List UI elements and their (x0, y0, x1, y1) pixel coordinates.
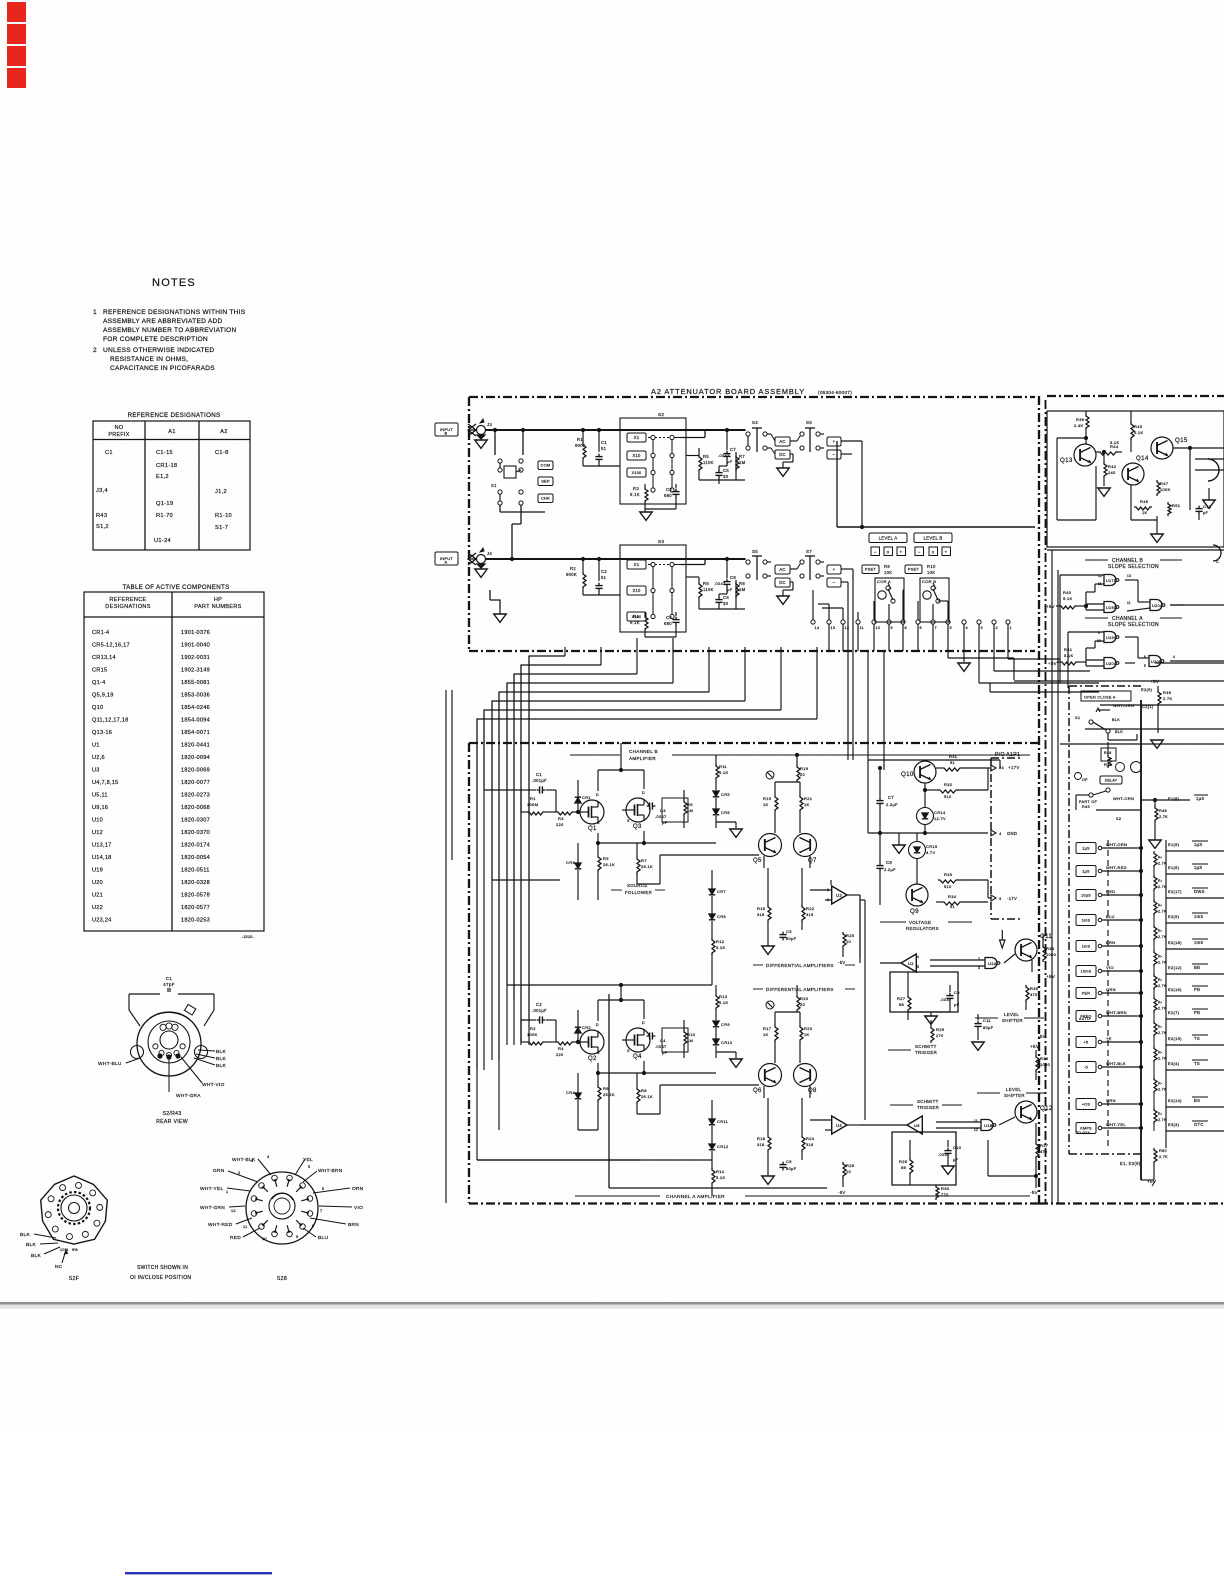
vertical wires from terminals to amplifiers (528, 656, 530, 770)
svg-text:REFERENCE DESIGNATIONS WITHIN: REFERENCE DESIGNATIONS WITHIN THIS (103, 309, 246, 316)
resistor R44 5.1K (1098, 452, 1118, 455)
svg-text:C3: C3 (660, 808, 666, 813)
svg-text:CR15: CR15 (92, 668, 107, 674)
svg-text:Q1: Q1 (588, 826, 597, 832)
svg-text:COR A: COR A (877, 579, 891, 584)
ground AC/DC channel A (777, 596, 789, 604)
svg-text:BB: BB (1194, 965, 1200, 970)
svg-text:BS: BS (1194, 1098, 1200, 1103)
svg-text:R11: R11 (719, 764, 727, 769)
svg-text:PB: PB (1194, 1010, 1200, 1015)
wire staircase long extensions (990, 691, 1099, 693)
svg-text:-17V: -17V (1007, 896, 1017, 901)
svg-text:R10: R10 (687, 1032, 696, 1037)
svg-text:1mS: 1mS (1194, 940, 1204, 945)
ground C10 (942, 1166, 954, 1174)
svg-text:C3: C3 (666, 487, 672, 492)
wire row level (1096, 809, 1141, 811)
svg-text:DELAY: DELAY (1105, 778, 1118, 782)
svg-text:SLOPE SELECTION: SLOPE SELECTION (1108, 622, 1159, 628)
svg-text:R•: R• (1158, 1082, 1163, 1086)
svg-text:D: D (642, 791, 645, 795)
svg-text:D: D (642, 1021, 645, 1025)
NAND U20A (1150, 600, 1162, 611)
wire Q5-Q7 emitters (763, 856, 765, 868)
NAND U2A2 (985, 958, 997, 969)
svg-text:C5: C5 (786, 929, 792, 934)
svg-text:X1: X1 (634, 562, 640, 567)
svg-text:Q1-4: Q1-4 (92, 680, 105, 686)
svg-text:1820-0068: 1820-0068 (181, 805, 210, 811)
connector S28 (246, 1172, 318, 1244)
svg-text:110K: 110K (703, 460, 714, 465)
wire vreg to A1P1 (867, 743, 869, 833)
svg-text:68: 68 (899, 1002, 905, 1007)
COR B switch box (920, 578, 949, 622)
svg-text:PART OF: PART OF (1079, 800, 1098, 804)
svg-text:E2(7): E2(7) (1168, 1010, 1180, 1015)
svg-text:BLU: BLU (318, 1235, 328, 1241)
svg-text:Q10: Q10 (92, 705, 103, 711)
COR A switch box (875, 578, 904, 622)
svg-text:R17: R17 (763, 1026, 772, 1031)
wire bus staircase right side 2 (744, 743, 746, 760)
svg-text:LEVEL: LEVEL (1004, 1012, 1019, 1017)
svg-text:5: 5 (950, 626, 952, 630)
source follower wires A (597, 1063, 599, 1082)
svg-text:CR5: CR5 (721, 792, 730, 797)
strip row E1(5) (1076, 843, 1096, 854)
svg-text:DWS: DWS (1194, 889, 1205, 894)
transistor Q7 (794, 834, 817, 857)
svg-text:A1: A1 (168, 429, 175, 435)
svg-text:10: 10 (846, 1169, 852, 1174)
svg-text:1854-0094: 1854-0094 (181, 718, 210, 724)
resistor R39 2.4K (1086, 414, 1089, 430)
ground CR6 (716, 821, 736, 823)
svg-text:R16: R16 (757, 906, 766, 911)
wire bus staircase (529, 656, 565, 1045)
svg-text:.0047: .0047 (655, 1044, 667, 1049)
svg-text:U13,17: U13,17 (92, 843, 112, 849)
svg-text:11: 11 (860, 626, 865, 630)
svg-text:7: 7 (320, 1209, 322, 1213)
svg-text:+17V: +17V (1008, 765, 1020, 770)
svg-text:OPEN CLOSE A: OPEN CLOSE A (1084, 696, 1116, 700)
wire Q12 emitter loop (987, 1140, 989, 1176)
svg-text:CR9: CR9 (721, 1022, 730, 1027)
svg-text:1820-0069: 1820-0069 (181, 768, 210, 774)
svg-text:.0047: .0047 (655, 814, 667, 819)
svg-text:9.1K: 9.1K (630, 620, 640, 625)
svg-text:WHT-BRN: WHT-BRN (1106, 1010, 1127, 1015)
svg-text:51: 51 (950, 904, 956, 909)
svg-text:9: 9 (296, 1235, 298, 1239)
svg-text:DC: DC (779, 580, 785, 585)
svg-text:2.7K: 2.7K (1158, 1031, 1167, 1035)
svg-text:U1: U1 (92, 743, 100, 749)
svg-text:5.1K: 5.1K (719, 770, 728, 775)
svg-text:10: 10 (262, 1237, 267, 1241)
svg-text:R21: R21 (804, 796, 813, 801)
svg-text:R1: R1 (530, 796, 536, 801)
svg-text:1855-0081: 1855-0081 (181, 680, 210, 686)
diode CR9 (713, 1021, 719, 1026)
diode CR3 (575, 863, 581, 868)
svg-text:R•: R• (1158, 1112, 1163, 1116)
transistor Q5 (759, 834, 782, 857)
strip row E2(14) (1076, 1099, 1096, 1110)
capacitor C8 .0047uF (726, 579, 728, 582)
svg-text:51: 51 (950, 760, 956, 765)
svg-text:R34: R34 (948, 894, 957, 899)
resistor R25 10 (843, 932, 846, 948)
svg-text:1M: 1M (739, 460, 746, 465)
capacitor C5 80uF (767, 922, 769, 938)
svg-text:+5V: +5V (1046, 604, 1055, 609)
svg-text:Q15: Q15 (1175, 437, 1188, 444)
svg-text:S1-7: S1-7 (215, 525, 228, 531)
svg-text:12.7V: 12.7V (934, 816, 946, 821)
zener CR14 12.7V (917, 808, 934, 825)
svg-text:R8: R8 (739, 581, 745, 586)
svg-text:S1,2: S1,2 (96, 524, 109, 530)
svg-text:-5V: -5V (1030, 1190, 1039, 1195)
svg-text:PSET: PSET (865, 567, 877, 572)
svg-text:51: 51 (601, 575, 607, 580)
svg-text:VIO: VIO (354, 1205, 363, 1211)
svg-text:E2(9): E2(9) (1141, 687, 1153, 692)
svg-text:S7: S7 (806, 549, 812, 554)
svg-text:µF: µF (662, 1050, 668, 1055)
resistor R26 68 (910, 1158, 913, 1175)
svg-text:R26: R26 (899, 1159, 908, 1164)
svg-text:µF: µF (727, 587, 733, 592)
svg-text:R13: R13 (719, 994, 728, 999)
svg-text:2.7K: 2.7K (1158, 984, 1167, 988)
wire U2A out (880, 962, 901, 964)
svg-text:CR8: CR8 (717, 914, 726, 919)
NAND U20B (1149, 656, 1161, 667)
svg-text:HP: HP (214, 597, 222, 603)
svg-text:Q1-19: Q1-19 (156, 501, 173, 507)
svg-text:E3(4): E3(4) (1168, 1061, 1180, 1066)
vertical bundle mid (852, 569, 854, 760)
resistor R23 1K (800, 1025, 803, 1042)
resistor R10 1M amp (684, 1030, 687, 1046)
resistor R-chain 2.7K a (1155, 806, 1158, 822)
resistor R14 5.1K (712, 1168, 715, 1185)
svg-text:26.1K: 26.1K (641, 1094, 653, 1099)
wire horizontal links lower (477, 1159, 640, 1161)
svg-text:E2(12): E2(12) (1168, 965, 1182, 970)
svg-text:2.7K: 2.7K (1159, 1155, 1168, 1159)
resistor R27 68 (908, 995, 911, 1012)
svg-text:R6: R6 (703, 581, 709, 586)
svg-text:WHT-YEL: WHT-YEL (1106, 1122, 1126, 1127)
transistor Q14 (1122, 463, 1144, 485)
svg-text:1820-0054: 1820-0054 (181, 855, 210, 861)
svg-text:S28: S28 (277, 1276, 287, 1282)
svg-text:4: 4 (267, 1155, 269, 1159)
svg-text:10µS: 10µS (1081, 893, 1091, 897)
svg-text:P/O A1P1: P/O A1P1 (995, 752, 1020, 758)
strip row E2(18) (1076, 941, 1096, 952)
svg-text:30: 30 (723, 474, 729, 479)
wire U4 out to right (859, 1124, 861, 1126)
svg-text:9.1K: 9.1K (630, 492, 640, 497)
svg-text:270: 270 (936, 1033, 944, 1038)
svg-text:270: 270 (941, 1192, 949, 1197)
svg-text:R5: R5 (703, 454, 709, 459)
svg-text:R19: R19 (800, 766, 809, 771)
svg-text:CR15: CR15 (926, 844, 938, 849)
resistor R37 470 (1036, 1142, 1039, 1159)
wire U3 out to right (859, 895, 861, 963)
diode CR10 (713, 1039, 719, 1044)
resistor R19 20 (797, 765, 800, 782)
component box C3 R9 (662, 798, 688, 822)
svg-text:−: − (874, 550, 877, 555)
SEP box (538, 477, 553, 486)
ground S2 network (640, 512, 652, 520)
svg-text:316: 316 (806, 1142, 814, 1147)
svg-text:DIFFERENTIAL AMPLIFIERS: DIFFERENTIAL AMPLIFIERS (766, 987, 834, 992)
svg-text:R1: R1 (577, 437, 583, 442)
svg-text:R40: R40 (1063, 590, 1072, 595)
svg-text:1K: 1K (804, 802, 810, 807)
diode CR6 (713, 809, 719, 814)
svg-text:UNLESS OTHERWISE INDICATED: UNLESS OTHERWISE INDICATED (103, 347, 214, 354)
svg-text:TO DSA: TO DSA (1076, 1131, 1091, 1135)
page separator gray band (0, 1302, 1224, 1305)
svg-text:240: 240 (1108, 470, 1116, 475)
resistor R13 5.1K (716, 994, 719, 1010)
NAND U19D (1104, 602, 1116, 613)
pot R43 circle (1116, 763, 1125, 772)
svg-text:R39: R39 (1076, 417, 1085, 422)
svg-text:Q13-16: Q13-16 (92, 730, 112, 736)
resistor R8 26.1K amp (637, 1087, 640, 1104)
svg-text:C1: C1 (536, 772, 542, 777)
switch S3 block (620, 545, 686, 632)
svg-text:+OS: +OS (1082, 1102, 1091, 1106)
resistor R4 220 amp (556, 1042, 574, 1045)
svg-text:µF: µF (1203, 511, 1208, 515)
svg-text:5.1K: 5.1K (1064, 653, 1073, 658)
svg-text:WHT-BRN: WHT-BRN (318, 1168, 343, 1174)
svg-text:R2: R2 (570, 566, 576, 571)
svg-text:R42: R42 (1108, 464, 1117, 469)
svg-text:R•: R• (1158, 978, 1163, 982)
wires Q13 box (1057, 437, 1086, 439)
resistor R33 510 (938, 880, 958, 883)
svg-text:GRN: GRN (1106, 1098, 1116, 1103)
wire bus right side (947, 651, 949, 658)
open close dashed box (1069, 685, 1141, 687)
PSET box A (862, 565, 879, 574)
svg-text:14: 14 (815, 626, 820, 630)
svg-text:E1,2: E1,2 (156, 474, 169, 480)
svg-text:PB: PB (1194, 987, 1200, 992)
resistor R4 9.1K (644, 612, 646, 615)
wire input B main (486, 429, 746, 431)
svg-text:BRN: BRN (348, 1222, 359, 1228)
LEVEL A box (869, 533, 907, 543)
svg-text:OTC: OTC (1194, 1122, 1204, 1127)
pin 4 GND (991, 830, 996, 836)
svg-text:C1: C1 (166, 976, 173, 981)
screwdriver adjust symbol (766, 771, 774, 779)
svg-text:SHIFTER: SHIFTER (1002, 1018, 1023, 1023)
differential amplifiers label (753, 964, 763, 966)
svg-text:+5V: +5V (1150, 679, 1160, 684)
svg-text:CR2: CR2 (582, 1025, 591, 1030)
ground C6 (762, 1176, 774, 1184)
svg-text:CR14: CR14 (934, 810, 946, 815)
svg-text:C5: C5 (723, 468, 729, 473)
svg-text:5.1K: 5.1K (1134, 430, 1143, 435)
svg-text:U3: U3 (836, 893, 842, 898)
wire channel wires crossing (847, 612, 849, 1203)
NAND U17D (1104, 575, 1116, 586)
transistor Q13 (1074, 444, 1096, 466)
left bus verticals down (528, 656, 530, 1020)
resistor R3 220 amp (556, 812, 574, 815)
svg-text:30: 30 (723, 601, 729, 606)
svg-text:R15: R15 (763, 796, 772, 801)
svg-text:GRN: GRN (213, 1168, 225, 1174)
svg-text:AUTO: AUTO (1079, 1017, 1090, 1021)
svg-text:1K: 1K (804, 1032, 810, 1037)
svg-text:TRIGGER: TRIGGER (915, 1050, 937, 1055)
transistor Q11 (1015, 939, 1037, 961)
svg-text:1K: 1K (1142, 510, 1148, 515)
svg-text:R46: R46 (1140, 499, 1149, 504)
svg-text:COM: COM (541, 463, 551, 468)
svg-text:2.7K: 2.7K (1163, 696, 1172, 701)
capacitor C9 .0047uF (949, 993, 951, 996)
svg-text:R38: R38 (1046, 946, 1055, 951)
svg-text:2.7K: 2.7K (1158, 1057, 1167, 1061)
ground vreg (893, 845, 905, 853)
svg-text:KMPS: KMPS (1080, 1126, 1092, 1130)
svg-text:C8: C8 (886, 860, 892, 865)
svg-text:+: + (945, 550, 948, 555)
channel A slope selection label (1085, 617, 1108, 619)
svg-text:1K: 1K (763, 802, 769, 807)
svg-text:U1B: U1B (984, 1123, 993, 1128)
svg-text:CHANNEL A AMPLIFIER: CHANNEL A AMPLIFIER (666, 1194, 725, 1200)
svg-text:A2 ATTENUATOR BOARD ASSEMBL: A2 ATTENUATOR BOARD ASSEMBLY (651, 387, 805, 396)
svg-text:COR B: COR B (922, 579, 936, 584)
svg-text:S6: S6 (806, 420, 812, 425)
svg-text:DESIGNATIONS: DESIGNATIONS (105, 604, 150, 610)
svg-text:R36: R36 (1040, 1056, 1049, 1061)
svg-text:+5V: +5V (1030, 1044, 1040, 1049)
svg-text:CR1-18: CR1-18 (156, 463, 177, 469)
svg-text:2: 2 (93, 347, 97, 354)
svg-text:+: + (833, 439, 836, 444)
svg-text:R25: R25 (846, 933, 855, 938)
svg-text:2.4K: 2.4K (1074, 423, 1083, 428)
blue underline mark bottom (125, 1572, 272, 1574)
connector J4 INPUT A (435, 552, 458, 565)
svg-text:SCHMITT: SCHMITT (915, 1044, 937, 1049)
wire Q2-Q4 drains (597, 1000, 599, 1021)
strip resistors 2.7K chain (1154, 852, 1157, 868)
channel B amplifier label (570, 754, 620, 756)
wire +5V vertical (1057, 570, 1059, 1203)
capacitor C12 (1198, 506, 1200, 509)
svg-text:B: B (445, 431, 448, 436)
FET Q1 (580, 800, 604, 824)
transistor Q10 (914, 761, 936, 783)
svg-text:R4: R4 (558, 1046, 564, 1051)
svg-text:CR5-12,16,17: CR5-12,16,17 (92, 643, 130, 649)
svg-text:R14: R14 (716, 1169, 725, 1174)
svg-text:ORN: ORN (1106, 987, 1116, 992)
source follower wires (597, 833, 599, 852)
svg-text:80µF: 80µF (983, 1025, 994, 1030)
wire U3 to U4 feedback (864, 900, 866, 1120)
switch S2 block (620, 418, 686, 504)
svg-text:C6: C6 (723, 595, 729, 600)
svg-text:R3: R3 (633, 486, 639, 491)
svg-text:WHT-GRN: WHT-GRN (200, 1205, 225, 1211)
svg-text:R43: R43 (1082, 805, 1090, 809)
svg-text:100K: 100K (527, 1032, 538, 1037)
connector S2F (41, 1176, 108, 1244)
svg-text:E2(14): E2(14) (1168, 1098, 1182, 1103)
svg-text:80µF: 80µF (786, 1166, 797, 1171)
transistor Q16 partial (1208, 459, 1219, 470)
svg-text:U17D: U17D (1106, 579, 1117, 583)
svg-text:1820-0578: 1820-0578 (181, 893, 210, 899)
svg-text:R1-70: R1-70 (156, 513, 173, 519)
svg-text:2.7K: 2.7K (1158, 1118, 1167, 1122)
connector J3 INPUT B (435, 423, 458, 436)
svg-text:1000: 1000 (1040, 1062, 1051, 1067)
svg-text:470: 470 (1030, 992, 1038, 997)
resistor R6 26.1K amp (598, 1085, 601, 1102)
svg-text:R33: R33 (944, 872, 953, 877)
svg-text:R37: R37 (1040, 1143, 1049, 1148)
capacitor C7 .0047uF (726, 451, 728, 454)
svg-text:R30: R30 (941, 1186, 950, 1191)
svg-text:TS: TS (1194, 1061, 1200, 1066)
svg-text:ASSEMBLY ARE ABBREVIATED ADD: ASSEMBLY ARE ABBREVIATED ADD (103, 318, 223, 325)
svg-text:1820-0077: 1820-0077 (181, 780, 210, 786)
svg-text:5: 5 (917, 965, 919, 969)
FET Q4 (626, 1028, 650, 1052)
svg-text:U20: U20 (92, 880, 103, 886)
svg-text:REGULATORS: REGULATORS (906, 926, 939, 931)
ground at J4 (475, 569, 487, 577)
pin 3 -17V (991, 895, 996, 901)
amplifier box border (469, 742, 1039, 744)
svg-text:R5: R5 (603, 856, 609, 861)
right strip vertical bus 2 (1165, 840, 1167, 1148)
svg-text:R20: R20 (800, 996, 809, 1001)
svg-text:1820-0511: 1820-0511 (181, 868, 210, 874)
svg-text:13: 13 (1127, 574, 1131, 578)
svg-text:CR13,14: CR13,14 (92, 655, 116, 661)
svg-text:R•: R• (1158, 1001, 1163, 1005)
svg-text:1820-0577: 1820-0577 (181, 905, 210, 911)
svg-text:C1-8: C1-8 (215, 450, 229, 456)
svg-text:6: 6 (322, 1187, 324, 1191)
